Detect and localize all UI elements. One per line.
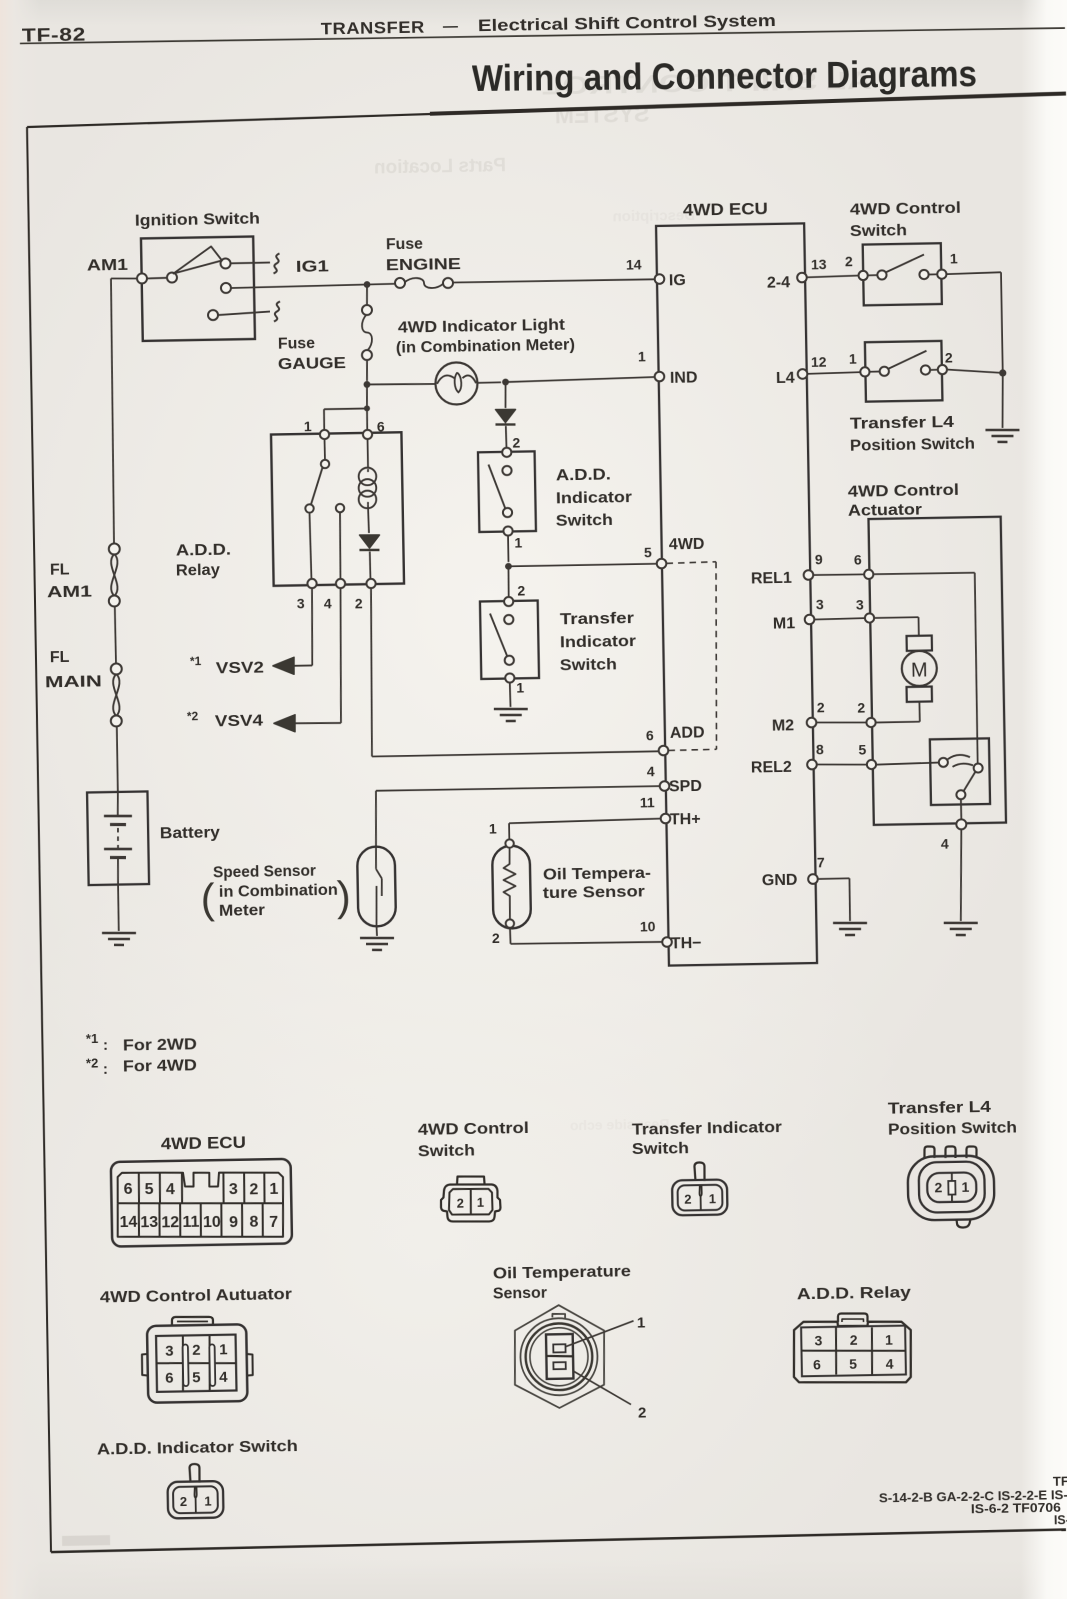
wire FL MAIN to battery <box>117 726 118 791</box>
svg-text:2: 2 <box>492 930 500 946</box>
svg-text:GND: GND <box>762 872 798 890</box>
ECU pin 9 REL1 <box>804 570 814 580</box>
4WD ECU box <box>656 223 817 965</box>
reed switch inside <box>376 869 382 879</box>
wire to actuator pin 4 <box>960 799 962 819</box>
svg-text:Relay: Relay <box>176 562 220 580</box>
svg-text:1: 1 <box>477 1195 484 1210</box>
battery cells <box>116 792 119 816</box>
ADD indicator switch connector body <box>167 1481 223 1518</box>
speed sensor capsule <box>357 846 396 926</box>
diagram frame left border <box>26 127 52 1552</box>
wire junction to ECU pin 4WD <box>508 564 657 567</box>
oil temp connector top notch <box>552 1314 565 1319</box>
4WD control switch box <box>863 243 942 305</box>
REL1 rail inside actuator <box>873 572 974 574</box>
wire switch to right rail <box>946 272 1001 274</box>
ignition switch box <box>141 237 255 341</box>
svg-text:Indicator: Indicator <box>556 489 632 507</box>
svg-text:7: 7 <box>817 854 825 870</box>
svg-text::: : <box>103 1037 108 1054</box>
svg-text:1: 1 <box>514 534 522 550</box>
svg-text:*1: *1 <box>86 1031 99 1046</box>
svg-text:1: 1 <box>849 350 857 366</box>
svg-text:For 4WD: For 4WD <box>123 1057 197 1075</box>
svg-text:A.D.D.: A.D.D. <box>176 542 231 560</box>
svg-text:MAIN: MAIN <box>45 674 102 692</box>
svg-text:2-4: 2-4 <box>767 274 791 291</box>
switch blade <box>888 351 927 369</box>
switch blade <box>488 464 505 509</box>
svg-text:4: 4 <box>886 1355 894 1371</box>
svg-text:AM1: AM1 <box>87 257 128 275</box>
wire relay pin2 to ECU pin ADD <box>369 588 374 756</box>
fusible link FL AM1 <box>109 543 120 554</box>
svg-text:A.D.D. Relay: A.D.D. Relay <box>797 1284 911 1303</box>
wire pin 4 to ground <box>959 829 963 921</box>
switch blade <box>490 613 508 657</box>
transfer indicator switch connector body <box>672 1179 728 1215</box>
svg-text:Oil Tempera-: Oil Tempera- <box>543 865 651 884</box>
4WD control switch connector <box>457 1176 485 1184</box>
transfer indicator switch box <box>480 601 539 679</box>
svg-text:2: 2 <box>817 699 825 715</box>
svg-text:FL: FL <box>50 561 70 578</box>
svg-text:Wiring and Connector Diagrams: Wiring and Connector Diagrams <box>472 53 977 99</box>
ground under ECU GND <box>833 922 867 923</box>
wire down to transfer indicator switch <box>507 566 510 597</box>
ground under right rail <box>985 429 1019 430</box>
diagram frame bottom border <box>51 1530 1066 1553</box>
svg-text:): ) <box>336 873 351 920</box>
svg-text:1: 1 <box>219 1341 228 1358</box>
A.D.D. relay box <box>271 432 404 586</box>
svg-text:4WD: 4WD <box>669 536 705 554</box>
svg-text:2: 2 <box>457 1195 464 1210</box>
switch connector inner cells <box>449 1188 493 1215</box>
svg-text:1: 1 <box>304 418 312 434</box>
svg-text:in Combination: in Combination <box>219 882 338 901</box>
wire battery to ground <box>117 884 120 931</box>
svg-text:Transfer L4: Transfer L4 <box>888 1099 991 1118</box>
svg-text:ture Sensor: ture Sensor <box>543 883 645 902</box>
ignition switch contacts <box>137 273 147 283</box>
svg-text:Switch: Switch <box>418 1142 475 1160</box>
ECU pin 7 GND <box>808 874 818 884</box>
wire contact to fuse GAUGE break <box>218 312 270 316</box>
svg-text:AM1: AM1 <box>47 584 92 602</box>
diode D1 <box>496 409 516 423</box>
svg-text:1: 1 <box>489 820 497 836</box>
L4 connector key slot and divider <box>951 1173 954 1201</box>
svg-text:2: 2 <box>192 1342 201 1359</box>
oil temp connector hexagon <box>514 1304 606 1408</box>
svg-text:M: M <box>911 659 928 681</box>
L4 connector bottom tab <box>957 1219 971 1228</box>
junction node at indicator light wire <box>364 381 371 388</box>
wire between fusible links <box>115 606 116 663</box>
svg-text:3: 3 <box>165 1342 174 1359</box>
ADD relay connector top tab <box>838 1313 868 1322</box>
svg-text:2: 2 <box>180 1494 187 1509</box>
svg-text:2: 2 <box>684 1191 691 1206</box>
svg-text:3: 3 <box>814 1332 822 1348</box>
wire REL1 <box>813 574 864 575</box>
svg-text:3: 3 <box>229 1181 238 1198</box>
svg-text:IG: IG <box>669 272 686 289</box>
actuator switch arm <box>963 772 975 791</box>
ignition switch arm <box>173 246 222 273</box>
callout line 2 <box>574 1370 631 1405</box>
diagram frame top border with thick title underline <box>27 114 432 127</box>
ECU pin 8 REL2 <box>807 760 817 770</box>
ground under speed sensor <box>360 937 394 938</box>
wires from junction to relay pins <box>366 384 369 408</box>
svg-text:TRANSFER: TRANSFER <box>321 19 425 39</box>
svg-text:Sensor: Sensor <box>493 1285 547 1303</box>
wire M2 to motor <box>876 721 920 724</box>
svg-text:For 2WD: For 2WD <box>123 1036 197 1054</box>
svg-text:1: 1 <box>709 1191 716 1206</box>
relay diode <box>359 535 379 549</box>
svg-text:2: 2 <box>512 434 520 450</box>
svg-text:2: 2 <box>249 1181 258 1198</box>
svg-text:3: 3 <box>856 596 864 612</box>
wire ECU TH+ to oil temp sensor <box>509 819 661 824</box>
svg-text:1: 1 <box>637 1314 646 1331</box>
svg-text:13: 13 <box>811 256 827 272</box>
svg-text:Battery: Battery <box>160 824 220 842</box>
svg-text:5: 5 <box>644 544 652 560</box>
svg-text:REL2: REL2 <box>751 759 792 777</box>
svg-text:Switch: Switch <box>850 222 907 240</box>
wire M2 <box>816 722 866 724</box>
L4 connector middle ring <box>919 1161 985 1212</box>
wire junction down to diode <box>504 382 507 408</box>
svg-text:4WD Control: 4WD Control <box>418 1120 529 1139</box>
wire REL2 to actuator switch <box>876 763 939 765</box>
svg-text:6: 6 <box>123 1181 132 1198</box>
ECU pin 5 4WD <box>657 559 667 569</box>
svg-text:GAUGE: GAUGE <box>278 355 347 373</box>
svg-text:SPD: SPD <box>669 778 702 796</box>
junction node <box>999 369 1006 376</box>
svg-text:1: 1 <box>204 1493 211 1508</box>
ADD relay connector outline <box>793 1320 912 1384</box>
wire ECU SPD to speed sensor <box>376 786 660 791</box>
svg-text:Electrical Shift Control Syste: Electrical Shift Control System <box>478 12 776 35</box>
junction node <box>364 281 371 288</box>
svg-text:5: 5 <box>858 741 866 757</box>
fuse ENGINE <box>395 278 405 288</box>
svg-text:11: 11 <box>640 794 655 810</box>
svg-text:4WD ECU: 4WD ECU <box>161 1134 246 1153</box>
ground under battery <box>102 932 136 933</box>
svg-text:(in Combination Meter): (in Combination Meter) <box>396 336 575 356</box>
svg-text:2: 2 <box>945 349 953 365</box>
svg-text:IND: IND <box>670 369 698 386</box>
ground under actuator <box>944 922 978 923</box>
wire contact to IG1 break <box>231 262 270 265</box>
svg-text:4: 4 <box>941 835 949 851</box>
faint print stamp bottom left <box>62 1535 110 1546</box>
L4 connector top tabs <box>924 1146 934 1158</box>
switch blade <box>885 255 924 273</box>
M1 wire to motor <box>874 616 918 619</box>
wire to ground <box>376 926 378 936</box>
actuator switch wiper arcs <box>948 755 970 759</box>
ECU pin 2 M2 <box>807 718 817 728</box>
motor M1 top brush <box>907 636 932 651</box>
svg-text:8: 8 <box>249 1214 258 1231</box>
svg-text:Switch: Switch <box>560 657 617 675</box>
svg-text:L4: L4 <box>776 370 795 387</box>
svg-text:10: 10 <box>640 918 656 934</box>
svg-text:5: 5 <box>849 1356 857 1372</box>
svg-text:1: 1 <box>961 1179 969 1195</box>
relay switch contact <box>324 439 326 460</box>
svg-text:*1: *1 <box>190 654 202 668</box>
wire ECU L4 to switch <box>807 372 860 374</box>
svg-text:2: 2 <box>934 1179 942 1195</box>
svg-text:REL1: REL1 <box>751 570 792 588</box>
svg-text:1: 1 <box>269 1181 278 1198</box>
svg-text:*2: *2 <box>86 1055 99 1070</box>
wire switch to junction <box>947 369 1003 374</box>
svg-text:(: ( <box>200 875 215 922</box>
svg-text:1: 1 <box>885 1331 893 1347</box>
svg-text:2: 2 <box>517 582 525 598</box>
ECU pin 4 SPD <box>660 781 670 791</box>
svg-text:SYSTEM: SYSTEM <box>555 101 650 129</box>
svg-text:TF: TF <box>1053 1474 1067 1489</box>
svg-text:2: 2 <box>850 1332 858 1348</box>
callout line 1 <box>566 1321 634 1347</box>
svg-text:11: 11 <box>182 1214 199 1231</box>
wire IG1 to ENGINE fuse <box>231 285 367 288</box>
ECU pin 11 TH+ <box>661 814 671 824</box>
ECU pin 6 ADD <box>659 746 669 756</box>
ECU pin 3 M1 <box>805 615 815 625</box>
svg-text:4WD Indicator Light: 4WD Indicator Light <box>398 317 566 337</box>
svg-text:Position Switch: Position Switch <box>850 435 975 454</box>
transfer indicator switch connector stem <box>694 1162 704 1181</box>
svg-text:1: 1 <box>638 348 646 364</box>
svg-text:M1: M1 <box>773 615 796 632</box>
ECU pin 1 IND <box>655 372 665 382</box>
wire to ground <box>509 683 512 707</box>
svg-text:Switch: Switch <box>556 512 613 530</box>
svg-text:9: 9 <box>229 1214 238 1231</box>
motor bottom brush <box>907 687 932 702</box>
ECU connector bottom row cells <box>117 1200 284 1239</box>
svg-text:6: 6 <box>165 1370 174 1387</box>
ECU connector middle rail <box>118 1200 283 1206</box>
svg-text:1: 1 <box>516 679 524 695</box>
dashed link 4WD to ADD <box>667 562 717 564</box>
svg-text:ADD: ADD <box>670 724 705 742</box>
oil temp pin 1 slot <box>553 1344 565 1352</box>
4WD ECU connector housing <box>111 1159 292 1247</box>
svg-text:14: 14 <box>626 256 642 272</box>
battery box <box>87 791 149 885</box>
svg-text:4: 4 <box>219 1369 228 1386</box>
svg-text:VSV4: VSV4 <box>215 713 263 731</box>
svg-text:Fuse: Fuse <box>386 236 423 254</box>
bleedthrough ghost text from reverse page <box>372 67 889 1137</box>
svg-text:4: 4 <box>647 763 655 779</box>
actuator pin 3 <box>865 613 874 622</box>
svg-text:9: 9 <box>815 551 823 567</box>
svg-text:Transfer L4: Transfer L4 <box>850 414 954 433</box>
4WD indicator lamp <box>435 362 478 405</box>
svg-text:4WD ECU: 4WD ECU <box>683 200 768 219</box>
wire M1 <box>814 618 865 619</box>
wire AM1 down left side <box>109 279 115 544</box>
svg-text:Ignition Switch: Ignition Switch <box>135 210 260 229</box>
wire to junction <box>507 536 509 562</box>
actuator switch box <box>930 738 990 805</box>
svg-text:Switch: Switch <box>632 1140 689 1158</box>
svg-text:2: 2 <box>857 699 865 715</box>
actuator connector side ears <box>142 1354 147 1376</box>
actuator pin 6 <box>864 570 873 579</box>
svg-text:Transfer Indicator: Transfer Indicator <box>632 1119 782 1139</box>
svg-text:FL: FL <box>50 649 70 666</box>
svg-text:ENGINE: ENGINE <box>386 256 462 274</box>
transfer L4 position switch box <box>865 341 943 402</box>
L4 connector outer shell <box>907 1155 994 1220</box>
svg-text:3: 3 <box>297 595 305 611</box>
wire REL2 <box>817 764 867 766</box>
svg-text:TH−: TH− <box>671 935 702 953</box>
actuator connector inner grid <box>156 1335 236 1392</box>
svg-text:4WD Control Autuator: 4WD Control Autuator <box>100 1286 292 1306</box>
oil temp sensor capsule <box>492 845 531 928</box>
ground under transfer indicator switch <box>494 708 528 709</box>
svg-text:2: 2 <box>355 595 363 611</box>
svg-text:1: 1 <box>950 250 958 266</box>
actuator pin 5 <box>867 760 876 769</box>
svg-text:5: 5 <box>192 1369 201 1386</box>
oil temp connector rings <box>520 1318 598 1396</box>
wire to indicator lamp <box>367 383 435 385</box>
ECU pin 13 2-4 <box>797 273 807 283</box>
svg-text:Position Switch: Position Switch <box>888 1119 1017 1138</box>
svg-text:—: — <box>443 18 458 35</box>
svg-text:6: 6 <box>813 1356 821 1372</box>
actuator box <box>868 517 1006 825</box>
resistor zigzag <box>503 848 517 920</box>
actuator connector key slots <box>183 1344 189 1386</box>
svg-text:2: 2 <box>845 253 853 269</box>
motor M <box>902 651 938 687</box>
svg-text:4: 4 <box>324 595 332 611</box>
svg-text:7: 7 <box>269 1214 278 1231</box>
svg-text:Parts Location: Parts Location <box>374 155 506 178</box>
svg-text:Transfer: Transfer <box>560 610 634 628</box>
svg-text::: : <box>103 1061 108 1078</box>
svg-text:A.D.D.: A.D.D. <box>556 467 611 485</box>
wire ECU GND to ground <box>818 877 850 880</box>
svg-text:8: 8 <box>816 741 824 757</box>
svg-text:VSV2: VSV2 <box>216 660 264 678</box>
relay coil <box>367 439 370 468</box>
svg-text:4: 4 <box>166 1181 175 1198</box>
svg-text:M2: M2 <box>772 717 795 734</box>
svg-text:A.D.D. Indicator Switch: A.D.D. Indicator Switch <box>97 1438 298 1459</box>
svg-text:TH+: TH+ <box>670 811 701 829</box>
right rail down <box>1001 272 1003 373</box>
ADD indicator switch connector stem <box>189 1464 199 1483</box>
A.D.D. indicator switch box <box>478 451 536 532</box>
fusible link FL MAIN <box>111 663 122 674</box>
svg-text:3: 3 <box>816 596 824 612</box>
wire to ground <box>1002 373 1004 428</box>
svg-text:6: 6 <box>646 727 654 743</box>
wire to ECU TH- <box>509 928 512 944</box>
relay bottom pins <box>307 579 316 588</box>
ADD relay connector grid <box>801 1326 906 1377</box>
svg-text:Meter: Meter <box>219 902 265 920</box>
svg-text:10: 10 <box>203 1214 221 1231</box>
wire AM1 to ignition switch <box>111 277 138 280</box>
svg-text:IS-: IS- <box>1054 1513 1067 1527</box>
fuse GAUGE vertical wire <box>366 285 369 306</box>
svg-text:5: 5 <box>144 1181 153 1198</box>
actuator pin 2 <box>866 718 875 727</box>
ECU pin 14 IG <box>655 274 665 284</box>
svg-text:4WD Control: 4WD Control <box>850 200 961 219</box>
wire relay pin3 to VSV2 <box>311 588 313 665</box>
actuator connector top tab <box>172 1316 213 1326</box>
svg-text:12: 12 <box>161 1214 179 1231</box>
svg-text:IG1: IG1 <box>296 258 329 276</box>
L4 connector inner ring <box>927 1172 977 1202</box>
svg-text:Oil Temperature: Oil Temperature <box>493 1263 631 1282</box>
svg-text:Speed Sensor: Speed Sensor <box>213 863 316 882</box>
svg-text:2: 2 <box>638 1404 647 1421</box>
header rule <box>20 25 1065 46</box>
svg-text:IS-6-2 TF0706: IS-6-2 TF0706 <box>971 1501 1061 1517</box>
wire ECU 2-4 to switch <box>807 276 859 278</box>
ECU pin 10 TH- <box>662 937 672 947</box>
oil temp pin 2 slot <box>553 1362 565 1369</box>
wire fuse ENGINE to ECU pin IG <box>453 279 655 283</box>
svg-text:12: 12 <box>811 354 827 370</box>
svg-text:13: 13 <box>140 1214 158 1231</box>
ECU connector top row cells <box>117 1170 283 1206</box>
svg-text:14: 14 <box>119 1214 137 1231</box>
actuator connector body <box>147 1324 248 1402</box>
svg-text:Indicator: Indicator <box>560 633 636 651</box>
wire relay pin4 to VSV4 <box>339 588 343 723</box>
ECU pin 12 L4 <box>798 369 808 379</box>
svg-text:6: 6 <box>854 551 862 567</box>
oil temp connector pin housing <box>546 1334 573 1379</box>
svg-text:Fuse: Fuse <box>278 335 315 353</box>
svg-text:4WD Control: 4WD Control <box>848 482 959 501</box>
svg-text:*2: *2 <box>187 709 199 723</box>
wire lamp to ECU pin IND <box>477 381 501 384</box>
